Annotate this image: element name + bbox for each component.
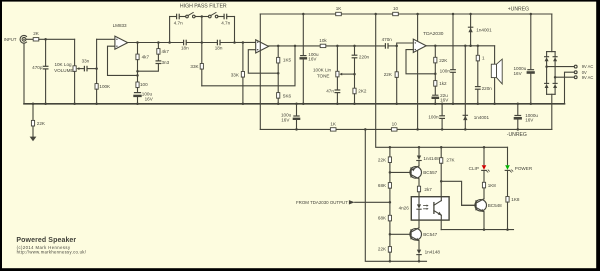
- svg-text:3n3: 3n3: [162, 60, 170, 65]
- wire to op1 +input: [97, 38, 115, 40]
- svg-text:CLIP: CLIP: [469, 166, 479, 171]
- wire jack to R 2K: [26, 38, 33, 40]
- HPF node left: [168, 41, 171, 44]
- node 33n corner: [95, 67, 98, 70]
- svg-text:1k2: 1k2: [439, 81, 447, 86]
- resistor 22K bias: [395, 46, 398, 104]
- svg-text:5K6: 5K6: [283, 93, 292, 98]
- resistor 1K5: [277, 46, 280, 93]
- node HPF right: [233, 41, 236, 44]
- wire 9V AC lower: [555, 76, 574, 78]
- svg-text:FROM TDA2030 OUTPUT: FROM TDA2030 OUTPUT: [296, 200, 348, 205]
- node op1 feedback: [136, 41, 139, 44]
- resistor 100K: [95, 84, 98, 104]
- svg-text:2k7: 2k7: [424, 187, 432, 192]
- wire 0V centre tap: [565, 72, 575, 104]
- transistor BC557: [390, 166, 422, 179]
- wire HPF top branch left: [170, 16, 176, 18]
- resistor 4k7 feedback: [136, 43, 139, 76]
- wire op2 output line: [269, 45, 385, 47]
- potentiometer 10K Log VOLUME: [73, 39, 83, 104]
- diode 1n4001 clamp to +UNREG: [468, 14, 472, 46]
- capacitor 470n: [385, 44, 396, 48]
- capacitor 100n supply decoupling: [451, 14, 456, 104]
- wire bridge negative feed: [546, 88, 548, 94]
- wire opto emitter down: [440, 220, 442, 230]
- wire HPF centre riser: [201, 17, 203, 43]
- capacitor 220n zobel: [476, 87, 481, 104]
- resistor ladder 68K lower: [388, 215, 391, 246]
- node zobel top: [477, 45, 480, 48]
- svg-text:LM833: LM833: [113, 23, 127, 28]
- terminal 0V: [574, 71, 577, 74]
- wire HPF right riser: [234, 17, 236, 43]
- svg-text:9V AC: 9V AC: [582, 75, 594, 80]
- terminal 9V AC upper: [574, 65, 577, 68]
- svg-text:10k: 10k: [319, 38, 327, 43]
- power amp TDA2030: [413, 39, 426, 52]
- ground rail 0V: [24, 103, 565, 105]
- resistor 100: [136, 75, 139, 92]
- resistor ladder 68K upper: [388, 183, 391, 216]
- diode bridge D3: [545, 82, 549, 84]
- node clamp diode 1 on output: [469, 45, 472, 48]
- svg-text:1K8: 1K8: [488, 183, 497, 188]
- resistor 33K second: [241, 43, 244, 104]
- optocoupler 4n26: [411, 197, 449, 220]
- capacitor 4.7n second: [224, 14, 234, 18]
- wire TDA output: [426, 45, 494, 47]
- svg-text:1K: 1K: [330, 122, 337, 127]
- capacitor 100u 16V electrolytic: [135, 93, 141, 104]
- LED section top rail dots: [389, 146, 486, 149]
- node POWER chain bottom: [506, 228, 509, 231]
- svg-text:22K: 22K: [378, 246, 387, 251]
- svg-text:33K: 33K: [190, 64, 199, 69]
- svg-text:Powered Speaker: Powered Speaker: [16, 237, 76, 244]
- speaker LS1: [491, 59, 502, 84]
- svg-text:100n: 100n: [440, 69, 451, 74]
- emitter rail: [441, 229, 513, 231]
- node after 470n: [395, 45, 398, 48]
- input arrow from TDA2030 output: [349, 200, 390, 204]
- resistor 22K to chassis: [31, 104, 34, 137]
- svg-text:BC547: BC547: [423, 232, 437, 237]
- node ladder bottom: [389, 260, 392, 263]
- svg-text:BC557: BC557: [423, 170, 437, 175]
- svg-text:16V: 16V: [525, 117, 534, 122]
- capacitor 220n tone: [352, 46, 357, 74]
- svg-text:47n: 47n: [326, 89, 334, 94]
- svg-text:POWER: POWER: [515, 166, 533, 171]
- resistor 10 negative supply: [391, 128, 397, 131]
- wire op2 inverting loop: [248, 50, 278, 73]
- node ladder mid: [389, 201, 392, 204]
- wire op2 supply vertical: [259, 14, 261, 129]
- node tone wiper junction: [353, 73, 356, 76]
- node 220n top: [353, 45, 356, 48]
- node op1 inverting join: [136, 74, 139, 77]
- node diode bottom rail: [418, 260, 421, 263]
- node 33K second top: [242, 41, 245, 44]
- svg-text:4.7n: 4.7n: [174, 20, 183, 25]
- svg-text:2K: 2K: [33, 31, 40, 36]
- node TDA supply top: [416, 13, 419, 16]
- positive supply rail +UNREG: [260, 13, 552, 15]
- svg-text:4n26: 4n26: [399, 205, 410, 210]
- node BC548 emitter rail: [483, 228, 486, 231]
- node tone pot top: [336, 45, 339, 48]
- node LED feed top: [374, 13, 377, 16]
- bridge rectifier: [545, 14, 558, 129]
- input jack J1: [20, 35, 26, 43]
- svg-text:18n: 18n: [181, 46, 189, 51]
- negative supply rail -UNREG: [260, 128, 552, 130]
- svg-text:1n4148: 1n4148: [423, 156, 439, 161]
- svg-text:4k7: 4k7: [142, 55, 150, 60]
- resistor 1K8 clip: [482, 170, 485, 198]
- resistor 4k7 second: [157, 43, 160, 61]
- svg-text:16V: 16V: [145, 97, 154, 102]
- capacitor 470p: [43, 39, 48, 104]
- svg-text:9V AC: 9V AC: [582, 64, 594, 69]
- op-amp U1a LM833: [115, 36, 128, 49]
- resistor 2K2: [353, 74, 356, 104]
- switch SW2: [202, 13, 224, 18]
- capacitor 33n: [84, 66, 96, 70]
- diode 1n4148 upper: [417, 147, 421, 166]
- svg-text:68K: 68K: [378, 183, 387, 188]
- node clamp diode top: [469, 13, 472, 16]
- diode bridge D4: [553, 82, 557, 84]
- node bridge AC right: [554, 76, 557, 79]
- resistor 1K8 power: [506, 170, 509, 229]
- resistor 22K feedback: [434, 46, 437, 81]
- node HPF top centre: [201, 15, 204, 18]
- svg-text:33K: 33K: [231, 73, 240, 78]
- LED CLIP red: [482, 147, 490, 172]
- svg-text:22K: 22K: [378, 158, 387, 163]
- wire LED section positive feed: [376, 14, 508, 147]
- wire SK feedback to op2 output: [202, 46, 295, 86]
- resistor ladder 22K top: [388, 147, 391, 182]
- wire bridge arms: [546, 61, 548, 83]
- svg-text:22K: 22K: [384, 72, 393, 77]
- node SK feedback tap: [294, 45, 297, 48]
- capacitor 1000u 16V positive reservoir: [528, 14, 534, 104]
- wire TDA supply vertical: [417, 14, 419, 129]
- node TDA feedback junction: [434, 73, 437, 76]
- svg-text:10: 10: [392, 122, 398, 127]
- diode bridge D1: [545, 56, 549, 58]
- svg-text:470p: 470p: [32, 65, 43, 70]
- node clamp diode 2 on output: [464, 45, 467, 48]
- node second feedback branch: [157, 41, 160, 44]
- svg-text:1n4001: 1n4001: [474, 115, 490, 120]
- ground rail junction dots: [32, 103, 532, 106]
- node BC557 base: [389, 171, 392, 174]
- resistor 1K negative supply: [330, 128, 336, 131]
- svg-text:VOLUME: VOLUME: [54, 68, 73, 73]
- capacitor 1000u 16V negative reservoir: [515, 104, 521, 130]
- capacitor 100u 16V negative decoupling: [294, 104, 299, 130]
- node 3n3 join: [136, 70, 139, 73]
- LED POWER green: [505, 147, 513, 172]
- svg-text:100K: 100K: [99, 84, 111, 89]
- op2 input marks: [257, 42, 258, 51]
- capacitor 100u 16V positive decoupling: [301, 14, 306, 104]
- node 1K5 top: [277, 45, 280, 48]
- svg-text:+UNREG: +UNREG: [508, 7, 529, 13]
- svg-text:22K: 22K: [439, 58, 448, 63]
- node HPF centre on signal line: [201, 41, 204, 44]
- wire op1 noninverting input vertical: [96, 39, 98, 83]
- svg-text:470n: 470n: [382, 37, 393, 42]
- svg-text:1: 1: [482, 56, 485, 61]
- resistor 1 zobel: [476, 46, 479, 86]
- svg-text:16V: 16V: [514, 71, 523, 76]
- node supply decoupling top: [302, 13, 305, 16]
- svg-text:TONE: TONE: [317, 73, 330, 78]
- node 1000u top: [530, 13, 533, 16]
- svg-text:220n: 220n: [482, 86, 493, 91]
- wire 9V AC upper: [547, 66, 575, 68]
- capacitor 47n: [335, 90, 340, 104]
- svg-text:100K Lin: 100K Lin: [313, 67, 332, 72]
- resistor 1K positive supply: [336, 12, 342, 15]
- wire HPF left riser: [169, 17, 171, 43]
- svg-text:100: 100: [140, 82, 148, 87]
- capacitor 100n negative decoupling: [440, 104, 445, 130]
- wire speaker to ground: [494, 78, 496, 104]
- node op2 feedback junction: [277, 72, 280, 75]
- node opto collector junction: [440, 180, 443, 183]
- svg-text:TDA2030: TDA2030: [423, 31, 444, 37]
- svg-text:-UNREG: -UNREG: [507, 132, 527, 138]
- terminal 9V AC lower: [574, 76, 577, 79]
- resistor 27K: [440, 147, 443, 196]
- svg-text:HIGH PASS FILTER: HIGH PASS FILTER: [180, 4, 227, 10]
- diode 1n4001 clamp to -UNREG: [463, 46, 467, 130]
- svg-text:220n: 220n: [359, 55, 370, 60]
- svg-text:1n4001: 1n4001: [476, 27, 492, 32]
- svg-text:33n: 33n: [82, 58, 90, 63]
- svg-text:16V: 16V: [308, 56, 317, 61]
- svg-text:BC548: BC548: [488, 203, 502, 208]
- potentiometer 100K Lin TONE: [336, 46, 355, 90]
- svg-text:100n: 100n: [428, 114, 439, 119]
- capacitor 4.7n first: [177, 14, 186, 18]
- svg-text:2K2: 2K2: [358, 89, 367, 94]
- node at 470p: [44, 38, 47, 41]
- resistor 10k: [320, 44, 326, 47]
- wire op1 output: [128, 42, 183, 44]
- capacitor 18n first: [184, 40, 217, 44]
- svg-text:10: 10: [393, 6, 399, 11]
- wire jog to TDA input: [397, 43, 414, 46]
- node bridge AC left: [545, 65, 548, 68]
- resistor 2K: [33, 38, 39, 41]
- ground chassis symbol: [30, 137, 37, 142]
- node 100n negative on ground rail: [441, 103, 444, 106]
- svg-text:http://www.markhennessy.co.uk/: http://www.markhennessy.co.uk/: [17, 249, 87, 254]
- capacitor 18n second: [217, 40, 255, 44]
- wire 2K to volume pot: [39, 38, 75, 40]
- resistor 5K6: [277, 93, 280, 104]
- svg-text:10K Log: 10K Log: [54, 62, 72, 67]
- wire to speaker: [494, 46, 496, 64]
- wire jack ground: [23, 43, 25, 104]
- svg-text:22K: 22K: [37, 121, 46, 126]
- wire bridge positive feed: [551, 14, 553, 52]
- transistor BC547: [390, 220, 422, 241]
- resistor 2k7: [417, 179, 420, 197]
- node 100n top: [452, 13, 455, 16]
- svg-text:18n: 18n: [215, 46, 223, 51]
- diode bridge D2: [553, 56, 557, 58]
- wire op1 inverting feedback loop: [108, 46, 138, 75]
- resistor 10 positive supply: [393, 12, 399, 15]
- svg-text:16V: 16V: [440, 97, 449, 102]
- wire TDA inverting loop: [406, 50, 435, 74]
- svg-text:4k7: 4k7: [162, 49, 170, 54]
- svg-text:INPUT: INPUT: [4, 37, 17, 42]
- capacitor 22u 16V: [433, 95, 438, 104]
- diode 1n4148 lower: [417, 241, 421, 261]
- resistor ladder 22K bottom: [388, 247, 391, 262]
- negative rail junction dots: [295, 128, 519, 131]
- capacitor 3n3: [138, 61, 161, 71]
- resistor 1k2: [434, 81, 437, 95]
- svg-text:1K: 1K: [336, 6, 343, 11]
- node BC547 base: [389, 233, 392, 236]
- svg-text:16V: 16V: [281, 117, 290, 122]
- transistor BC548: [462, 199, 487, 230]
- svg-text:1K5: 1K5: [283, 58, 292, 63]
- wire LED section negative feed: [365, 129, 426, 261]
- wire to BC548 base: [441, 181, 476, 205]
- svg-text:4.7n: 4.7n: [221, 20, 230, 25]
- svg-text:27K: 27K: [446, 158, 455, 163]
- op-amp U1b LM833: [256, 40, 269, 53]
- svg-text:68K: 68K: [378, 216, 387, 221]
- svg-text:1K8: 1K8: [511, 197, 520, 202]
- resistor 33K first: [200, 43, 203, 86]
- node TDA feedback top: [434, 45, 437, 48]
- switch SW1: [186, 13, 202, 18]
- svg-text:1n4148: 1n4148: [425, 250, 441, 255]
